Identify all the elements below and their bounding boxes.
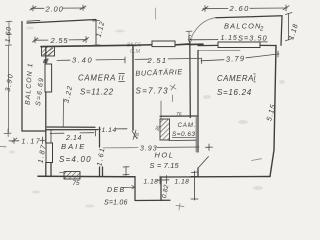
- dimension 1.18 balcony2 vertical: [286, 13, 293, 41]
- svg-text:S=1.06: S=1.06: [104, 200, 128, 207]
- balcony2 floor line: [190, 39, 218, 41]
- pier corner camera2: [42, 47, 55, 56]
- svg-text:C.M: C.M: [130, 49, 141, 55]
- dimension 60 ticks: [186, 31, 192, 42]
- bucatarie door jamb line: [160, 101, 162, 119]
- wall hol/camera1 lower: [197, 168, 199, 177]
- wall camera1 bottom: [196, 176, 270, 178]
- dimension 2.00 line with arrows: [31, 7, 85, 9]
- door swing camera1: [198, 157, 209, 169]
- dimension 3.40 / 2.51 line: [57, 57, 201, 63]
- svg-text:3.40: 3.40: [72, 56, 93, 65]
- wall balcony2 top: [216, 16, 282, 18]
- svg-text:76: 76: [176, 112, 182, 118]
- svg-text:2: 2: [259, 27, 264, 33]
- window camera2-balcony1: [45, 64, 52, 92]
- faint text C.M: [127, 43, 142, 56]
- svg-text:2.00: 2.00: [45, 4, 64, 13]
- wall balcony1 outer top: [27, 20, 96, 24]
- svg-text:II: II: [119, 73, 125, 82]
- svg-text:S=7.73: S=7.73: [136, 86, 169, 95]
- svg-text:DEB: DEB: [107, 187, 126, 194]
- scribble under bucatarie area text: [170, 85, 176, 102]
- svg-text:1.15: 1.15: [221, 35, 238, 42]
- wall baie left lower: [46, 163, 51, 177]
- svg-text:2.14: 2.14: [65, 135, 82, 142]
- svg-text:BALCON: BALCON: [224, 22, 262, 31]
- dimension 1.18 deb ticks: [157, 176, 169, 185]
- svg-text:1.18: 1.18: [144, 178, 159, 185]
- wall bottom left (baie): [38, 175, 135, 178]
- entrance dim line vertical: [194, 171, 196, 200]
- wall camera1 top right segment: [260, 44, 276, 46]
- dimension 1.12 ticks: [93, 21, 100, 46]
- deb bottom wall: [135, 199, 170, 201]
- dimension 3.22 line lower stub: [62, 99, 64, 127]
- svg-text:CAMERA: CAMERA: [217, 74, 254, 83]
- dimension 1.17 line: [9, 137, 45, 144]
- svg-text:BAIE: BAIE: [61, 142, 86, 151]
- wall divider camera2/bucatarie: [132, 45, 134, 130]
- dimension 2.60 line with arrows: [202, 5, 289, 12]
- wall camera1 right: [270, 46, 276, 177]
- wall balcony2 right: [281, 16, 282, 46]
- wall hol/camera1 inner face: [195, 117, 197, 152]
- scribble bottom center: [176, 204, 184, 211]
- svg-text:S=4.00: S=4.00: [59, 155, 92, 164]
- svg-text:2.55: 2.55: [50, 36, 69, 45]
- wall balcony1 top double stub: [27, 19, 40, 22]
- dimension 3.93 line: [103, 147, 138, 149]
- svg-text:1.60: 1.60: [5, 26, 13, 42]
- faint dash camera1: [252, 159, 262, 161]
- svg-text:1.17: 1.17: [22, 138, 42, 145]
- wall bucatarie top left segment: [133, 44, 152, 47]
- svg-text:1.18: 1.18: [175, 179, 190, 186]
- radiator 75 hatched: [64, 172, 80, 180]
- wall camera1 top inner face: [198, 49, 240, 51]
- window camera1-balcony2: [218, 42, 260, 48]
- svg-text:3.79: 3.79: [226, 54, 246, 64]
- svg-text:S=0.63: S=0.63: [172, 131, 195, 138]
- wall camera2 left upper: [45, 47, 47, 64]
- deb right wall: [160, 177, 162, 201]
- dimension 1.60 vertical line: [6, 21, 12, 45]
- svg-text:S=3.50: S=3.50: [238, 34, 268, 43]
- wall baie right: [100, 127, 103, 176]
- wall bottom middle (hol): [161, 176, 196, 178]
- svg-text:S = 7.15: S = 7.15: [150, 161, 180, 170]
- window bucatarie top: [152, 41, 175, 47]
- wall camera2 left mid: [45, 92, 47, 143]
- svg-text:CAM.: CAM.: [178, 122, 197, 129]
- svg-text:I: I: [254, 74, 256, 83]
- small faint vline top: [154, 8, 156, 19]
- svg-text:HOL: HOL: [155, 151, 175, 160]
- svg-text:BILES: BILES: [127, 43, 142, 49]
- svg-text:1.14: 1.14: [102, 127, 117, 134]
- window baie-left: [46, 143, 53, 163]
- wall camera2 bottom: [47, 126, 95, 128]
- svg-text:S=11.22: S=11.22: [80, 88, 114, 97]
- svg-text:2.60: 2.60: [229, 4, 250, 13]
- dimension 20 ticks bottom wall: [123, 167, 129, 176]
- closet CAM hatched: [160, 119, 170, 140]
- wall camera1 top left segment: [198, 44, 218, 46]
- dimension 3.90 vertical line: [4, 45, 12, 137]
- deb left wall: [134, 177, 136, 201]
- dimension 3.79 line: [201, 51, 279, 64]
- wall baie top: [46, 129, 97, 131]
- wall camera2 left inner face: [50, 130, 52, 144]
- dimension 2.14 line: [50, 131, 96, 137]
- dimension 2.55 line: [33, 37, 89, 44]
- wall bucatarie right: [189, 42, 192, 118]
- stray mark left edge: [0, 146, 6, 148]
- wall stub below bucatarie window right: [176, 43, 203, 46]
- closet CAM bottom line: [169, 139, 196, 141]
- wall balcony1 bottom: [22, 130, 45, 132]
- svg-text:CAMERA: CAMERA: [78, 74, 116, 83]
- svg-text:2.51: 2.51: [147, 56, 168, 65]
- paper smudges: [9, 27, 285, 208]
- wall balcony1 right edge vertical (1.12 dim line): [95, 20, 97, 46]
- deb arrow: [121, 186, 135, 190]
- balcony2 leader curve: [192, 18, 216, 37]
- dimension 1.14 line segments: [97, 128, 127, 131]
- wall hol/camera1 upper: [197, 51, 199, 153]
- svg-text:S=16.24: S=16.24: [217, 88, 252, 97]
- door opening hol scribble 16: [132, 130, 137, 140]
- svg-text:75: 75: [73, 180, 81, 187]
- wall camera2 top: [41, 45, 133, 46]
- wall bucatarie bottom (cam top): [160, 115, 198, 117]
- wall balcony1 left edge: [21, 22, 23, 132]
